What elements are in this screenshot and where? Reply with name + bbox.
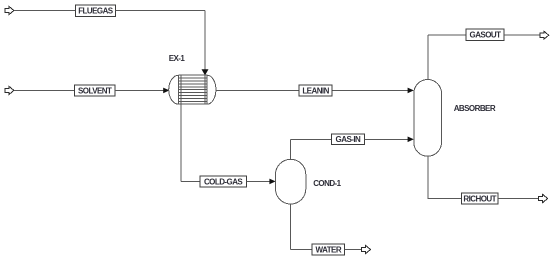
svg-text:GAS-IN: GAS-IN [336, 135, 361, 144]
svg-text:FLUEGAS: FLUEGAS [78, 7, 114, 16]
label box COLD-GAS [200, 176, 246, 187]
svg-text:LEANIN: LEANIN [302, 86, 329, 95]
arrowhead FLUEGAS into EX-1 [202, 69, 209, 75]
wire RICHOUT vertical from ABSORBER bottom [427, 156, 429, 198]
svg-text:SOLVENT: SOLVENT [78, 86, 112, 95]
svg-text:WATER: WATER [316, 245, 342, 254]
wire FLUEGAS vertical drop into EX-1 [204, 11, 206, 70]
wire COLD-GAS vertical from EX-1 [180, 104, 182, 181]
wire FLUEGAS left segment [14, 10, 75, 12]
label box LEANIN [299, 85, 332, 96]
wire WATER vertical from COND-1 bottom [290, 204, 292, 250]
stream outlet arrow GASOUT [540, 31, 549, 39]
heat exchanger EX-1 [169, 75, 216, 104]
wire WATER to outlet [345, 249, 362, 251]
wire SOLVENT into EX-1 [115, 89, 164, 91]
wire COLD-GAS horizontal to label [181, 180, 200, 182]
label box GASOUT [466, 29, 504, 40]
label box SOLVENT [74, 85, 115, 96]
wire GASOUT vertical from ABSORBER top [427, 35, 429, 79]
arrowhead LEANIN into ABSORBER [408, 88, 414, 94]
wire RICHOUT to outlet [498, 198, 539, 200]
svg-text:COLD-GAS: COLD-GAS [204, 177, 243, 186]
svg-text:ABSORBER: ABSORBER [454, 104, 496, 113]
wire RICHOUT horizontal to label [428, 198, 462, 200]
wire GASOUT horizontal to label [428, 34, 466, 36]
label box RICHOUT [461, 193, 498, 204]
wire WATER horizontal to label [291, 249, 312, 251]
label box WATER [312, 244, 345, 255]
stream outlet arrow RICHOUT [539, 194, 548, 202]
wire SOLVENT left segment [14, 89, 75, 91]
wire GAS-IN vertical from COND-1 top [290, 139, 292, 159]
label box GAS-IN [331, 134, 364, 145]
arrowhead SOLVENT into EX-1 [163, 88, 169, 94]
wire COLD-GAS into COND-1 [246, 180, 269, 182]
wire GASOUT to outlet [504, 34, 540, 36]
svg-text:RICHOUT: RICHOUT [463, 194, 496, 203]
absorber column ABSORBER [414, 80, 442, 157]
stream outlet arrow WATER [362, 245, 371, 253]
wire LEANIN from EX-1 to ABSORBER [216, 89, 408, 91]
stream source arrow FLUEGAS [5, 6, 14, 14]
arrowhead COLD-GAS into COND-1 [269, 179, 275, 185]
label box FLUEGAS [75, 5, 115, 16]
condenser vessel COND-1 [276, 159, 306, 204]
arrowhead GAS-IN into ABSORBER [408, 137, 414, 143]
wire FLUEGAS middle segment [116, 10, 205, 12]
wire GAS-IN horizontal to label [291, 138, 332, 140]
svg-text:COND-1: COND-1 [313, 179, 341, 188]
wire GAS-IN into ABSORBER [365, 138, 408, 140]
svg-text:EX-1: EX-1 [169, 54, 186, 63]
svg-text:GASOUT: GASOUT [470, 31, 502, 40]
stream source arrow SOLVENT [5, 86, 14, 94]
